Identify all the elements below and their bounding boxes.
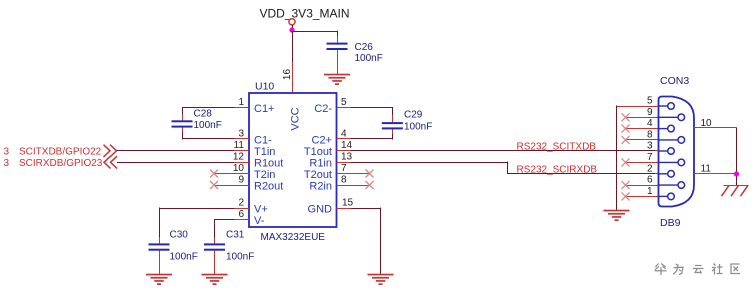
pin 12 (233, 152, 249, 163)
svg-text:7: 7 (647, 152, 653, 163)
svg-text:CON3: CON3 (660, 75, 689, 87)
pin 7 (no connect) (337, 163, 370, 174)
ground (below C30) (146, 274, 172, 285)
DB9 pin 1 (no connect) (626, 186, 675, 200)
port SCITXDB/GPIO22 (19, 145, 117, 158)
svg-text:11: 11 (701, 164, 712, 175)
svg-text:9: 9 (647, 107, 653, 118)
svg-text:100nF: 100nF (170, 251, 198, 262)
wire pin3 to C28 loop (182, 138, 234, 140)
power port VDD_3V3_MAIN (260, 7, 350, 32)
svg-text:T2out: T2out (304, 169, 332, 181)
DB9 pin 10 (shield) (693, 118, 737, 129)
watermark char 华 (655, 264, 667, 276)
svg-text:3: 3 (4, 147, 10, 158)
connector CON3 DB9 body (659, 97, 695, 207)
IC U10 MAX3232EUE body (249, 93, 337, 227)
pin 1 (233, 97, 249, 108)
wire shield pins to chassis (736, 128, 738, 186)
svg-text:12: 12 (233, 152, 245, 163)
no-connect X DB9 pin 8 (622, 136, 630, 144)
no-connect X DB9 pin 7 (622, 158, 630, 166)
svg-text:VCC: VCC (290, 107, 302, 130)
junction dot (shield node) (734, 171, 739, 176)
svg-text:C30: C30 (170, 230, 189, 241)
svg-text:V+: V+ (254, 204, 268, 216)
pin 2 (233, 198, 249, 209)
DB9 pin 2 (647, 163, 674, 177)
DB9 pin 11 (shield) (694, 164, 737, 175)
ground (below C31) (202, 274, 228, 285)
svg-text:R2in: R2in (309, 181, 332, 193)
no-connect X pin 7 (366, 170, 374, 178)
junction dot (VDD node) (289, 27, 294, 32)
wire pin1 to C28 loop (182, 107, 234, 109)
svg-text:C29: C29 (404, 110, 423, 121)
svg-text:100nF: 100nF (226, 251, 254, 262)
svg-text:11: 11 (234, 140, 245, 151)
pin 10 (no connect) (214, 163, 249, 174)
pin 4 (337, 128, 353, 139)
svg-text:3: 3 (4, 158, 10, 169)
svg-text:100nF: 100nF (355, 53, 383, 64)
svg-text:C26: C26 (355, 42, 374, 53)
svg-text:4: 4 (647, 118, 653, 129)
wire pin5 to C29 loop (351, 107, 392, 109)
wire pin15 (GND) to ground (351, 207, 381, 274)
svg-text:5: 5 (341, 97, 347, 108)
svg-text:C31: C31 (226, 230, 245, 241)
ground (below C26) (324, 74, 350, 85)
wire pin6 (V-) to C31 (215, 219, 235, 244)
wire C31 to ground (214, 251, 216, 274)
DB9 pin 9 (no connect) (626, 107, 685, 121)
sheet ref 3 (SCIRXDB) (4, 158, 10, 169)
capacitor C31 (204, 230, 254, 263)
svg-text:3: 3 (647, 141, 653, 152)
no-connect X DB9 pin 4 (622, 125, 630, 133)
wire net RS232_SCIRXDB (pin13 to DB9 pin2) (351, 161, 658, 173)
svg-text:C2-: C2- (314, 103, 332, 115)
pin 16 number (282, 69, 293, 81)
svg-text:10: 10 (233, 163, 245, 174)
svg-text:8: 8 (647, 130, 653, 141)
pin 5 (337, 97, 353, 108)
DB9 pin 6 (no connect) (626, 175, 685, 189)
wire C30 to ground (159, 251, 161, 274)
pin 13 (337, 152, 353, 163)
svg-text:C2+: C2+ (312, 134, 333, 146)
wire VDD junction to pin 16 (292, 31, 294, 93)
svg-text:13: 13 (341, 152, 353, 163)
value label DB9 (660, 217, 681, 229)
capacitor C29 (382, 110, 433, 133)
wire C29 vertical top (392, 107, 394, 123)
IC U10 designator (255, 81, 274, 93)
net label RS232_SCIRXDB (517, 164, 598, 175)
wire port to pin 12 (117, 162, 234, 164)
svg-text:V-: V- (254, 215, 265, 227)
svg-text:4: 4 (341, 128, 347, 139)
svg-text:RS232_SCIRXDB: RS232_SCIRXDB (517, 164, 598, 175)
svg-text:VDD_3V3_MAIN: VDD_3V3_MAIN (260, 7, 350, 21)
watermark char 云 (693, 266, 704, 274)
svg-text:6: 6 (647, 175, 653, 186)
wire C28 vertical top (182, 107, 184, 121)
net label RS232_SCITXDB (517, 141, 597, 152)
no-connect X DB9 pin 9 (622, 113, 630, 121)
svg-text:C1+: C1+ (254, 103, 275, 115)
svg-text:MAX3232EUE: MAX3232EUE (261, 232, 326, 243)
svg-text:15: 15 (342, 198, 354, 209)
port SCIRXDB/GPIO23 (19, 156, 117, 169)
svg-text:1: 1 (647, 186, 653, 197)
DB9 pin 8 (no connect) (626, 130, 685, 144)
wire C29 vertical bottom (392, 128, 394, 139)
svg-text:2: 2 (238, 198, 244, 209)
no-connect X pin 8 (366, 181, 374, 189)
no-connect X pin 10 (210, 170, 218, 178)
pin 3 (233, 128, 249, 139)
pin 8 (no connect) (337, 175, 370, 186)
svg-text:100nF: 100nF (404, 122, 432, 133)
wire C28 vertical bottom (182, 126, 184, 139)
svg-text:16: 16 (282, 69, 293, 81)
svg-text:100nF: 100nF (194, 120, 222, 131)
svg-text:C1-: C1- (254, 134, 272, 146)
wire pin4 to C29 loop (351, 138, 392, 140)
svg-text:9: 9 (238, 175, 244, 186)
watermark char 社 (712, 264, 723, 275)
no-connect X DB9 pin 1 (622, 192, 630, 200)
watermark char 为 (673, 264, 683, 275)
svg-text:7: 7 (341, 163, 347, 174)
no-connect X DB9 pin 6 (622, 181, 630, 189)
capacitor C28 (172, 109, 222, 132)
ground (below DB9 pin5) (604, 210, 630, 221)
pin 6 (233, 209, 249, 220)
svg-text:2: 2 (647, 163, 653, 174)
pin 15 (337, 198, 354, 209)
svg-text:3: 3 (238, 128, 244, 139)
wire port to pin 11 (117, 150, 235, 152)
DB9 pin 4 (no connect) (626, 118, 675, 132)
svg-text:R1in: R1in (309, 158, 332, 170)
wire net RS232_SCITXDB (pin14 to DB9 pin3) (351, 150, 658, 152)
wire pin2 (V+) to C30 (159, 207, 234, 243)
svg-text:6: 6 (238, 209, 244, 220)
svg-text:SCITXDB/GPIO22: SCITXDB/GPIO22 (19, 147, 102, 158)
DB9 pin 5 (617, 96, 675, 110)
wire C26 to ground (337, 50, 339, 74)
pin 11 (233, 140, 249, 151)
svg-text:GND: GND (308, 204, 333, 216)
ground (below pin 15) (368, 274, 394, 285)
svg-text:SCIRXDB/GPIO23: SCIRXDB/GPIO23 (19, 158, 103, 169)
chassis ground (right) (722, 185, 749, 196)
pin 14 (337, 140, 353, 151)
sheet ref 3 (SCITXDB) (4, 147, 10, 158)
DB9 pin 3 (647, 141, 674, 155)
capacitor C26 (327, 42, 383, 64)
value label MAX3232EUE (261, 232, 326, 243)
wire DB9 pin5 to ground (616, 105, 618, 210)
svg-text:10: 10 (701, 118, 713, 129)
svg-text:RS232_SCITXDB: RS232_SCITXDB (517, 141, 597, 152)
pin 9 (no connect) (214, 175, 249, 186)
svg-text:R2out: R2out (254, 181, 283, 193)
connector CON3 designator (660, 75, 689, 87)
svg-text:U10: U10 (255, 81, 274, 93)
svg-text:5: 5 (647, 96, 653, 107)
DB9 pin 7 (no connect) (626, 152, 685, 166)
svg-text:C28: C28 (194, 109, 213, 120)
watermark char 区 (731, 264, 740, 274)
svg-text:T1out: T1out (304, 146, 332, 158)
wire VDD junction to C26 (291, 30, 337, 42)
svg-text:8: 8 (341, 175, 347, 186)
svg-text:1: 1 (238, 97, 244, 108)
svg-text:14: 14 (341, 140, 353, 151)
capacitor C30 (149, 230, 198, 263)
no-connect X pin 9 (210, 181, 218, 189)
svg-text:DB9: DB9 (660, 217, 681, 229)
svg-text:R1out: R1out (254, 158, 283, 170)
svg-text:T1in: T1in (254, 146, 275, 158)
svg-text:T2in: T2in (254, 169, 275, 181)
